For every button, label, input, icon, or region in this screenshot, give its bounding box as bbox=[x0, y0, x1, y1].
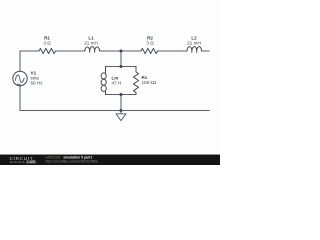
node junction dot box bottom bbox=[120, 93, 123, 96]
svg-text:http://circuitlab.com/c/ur/fpn: http://circuitlab.com/c/ur/fpnh245bu bbox=[46, 160, 99, 164]
inductor L1 bbox=[85, 47, 100, 51]
svg-text:21 mH: 21 mH bbox=[187, 40, 201, 45]
svg-text:21 mH: 21 mH bbox=[84, 40, 98, 45]
wire node drop from top rail to parallel box bbox=[120, 51, 122, 67]
svg-text:100 kΩ: 100 kΩ bbox=[142, 80, 157, 85]
logo CircuitLab wordmark bbox=[10, 156, 37, 164]
svg-text:50 Hz: 50 Hz bbox=[31, 81, 44, 86]
footer bar bbox=[0, 154, 220, 165]
resistor R1 bbox=[39, 48, 56, 53]
voltage source V1 circle bbox=[13, 71, 27, 85]
node junction dot bottom rail bbox=[120, 109, 123, 112]
svg-text:47 H: 47 H bbox=[112, 80, 122, 85]
wire top rail: R2 to L2 bbox=[159, 50, 188, 52]
svg-text:LAB: LAB bbox=[27, 160, 35, 164]
V1 minus mark bbox=[17, 83, 20, 85]
wire top rail: L1 to R2 (through node) bbox=[100, 50, 141, 52]
wire left rail bottom (V1 bottom to bottom rail) bbox=[19, 86, 21, 111]
node junction dot top rail bbox=[120, 50, 123, 53]
wire parallel box top bar bbox=[106, 66, 137, 68]
wire parallel box bottom bar bbox=[106, 94, 137, 96]
svg-text:3 Ω: 3 Ω bbox=[146, 40, 154, 45]
inductor Lm (vertical, loops left) bbox=[105, 67, 107, 74]
ground bbox=[116, 111, 126, 121]
node junction dot box top bbox=[120, 65, 123, 68]
resistor R2 bbox=[141, 48, 159, 53]
wire top rail: L2 to open end bbox=[202, 50, 210, 52]
wire top rail: corner to R1 bbox=[20, 50, 39, 52]
resistor Rc (vertical) bbox=[133, 67, 138, 95]
inductor L2 bbox=[187, 47, 202, 51]
wire bottom rail bbox=[20, 110, 209, 112]
V1 sine glyph bbox=[15, 75, 24, 82]
wire top rail: R1 to L1 bbox=[56, 50, 85, 52]
wire box bottom to bottom rail bbox=[120, 95, 122, 111]
svg-text:3 Ω: 3 Ω bbox=[43, 40, 51, 45]
wire left rail top (V1 top to top rail) bbox=[19, 51, 21, 71]
